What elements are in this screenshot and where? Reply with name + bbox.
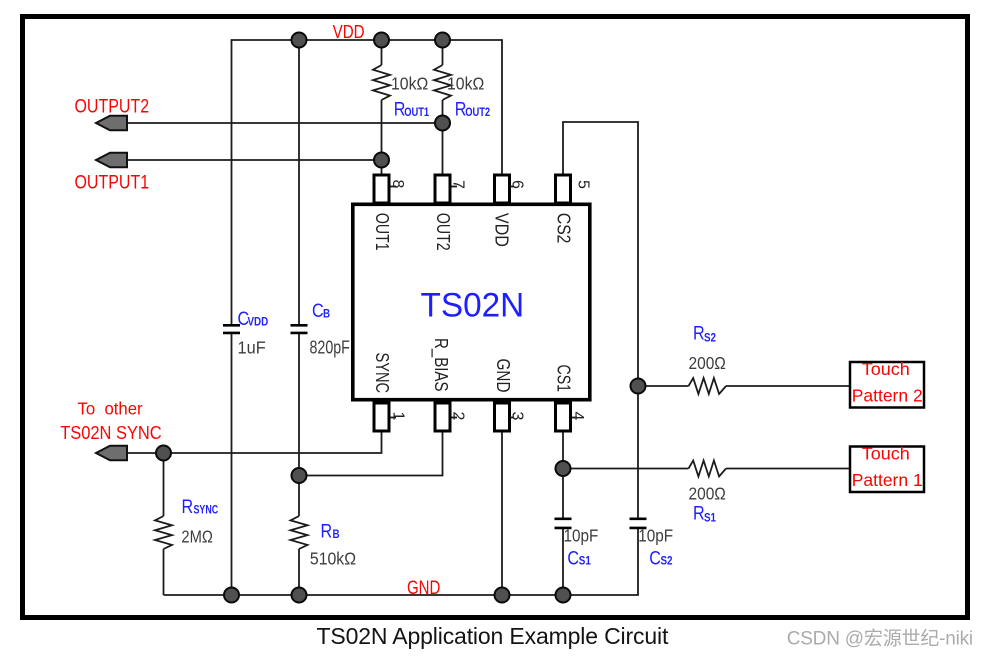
svg-text:510kΩ: 510kΩ <box>310 548 356 568</box>
svg-text:6: 6 <box>509 180 526 189</box>
label RB <box>321 520 340 542</box>
capacitor CVDD plates <box>223 325 240 333</box>
wire CS2 bottom to GND rail <box>164 529 639 596</box>
label CS2 <box>649 547 672 569</box>
wire ROUT2 to pin7 <box>442 100 444 174</box>
pin 7 tick <box>452 186 458 188</box>
wire CS2 node to RS2 <box>638 385 689 387</box>
svg-text:R: R <box>321 520 333 542</box>
svg-text:Touch: Touch <box>862 359 910 379</box>
wire pin4 to CS1 node <box>562 430 564 518</box>
node junction SYNC-RSYNC <box>156 446 171 461</box>
wire GND rail to RSYNC <box>163 549 165 595</box>
svg-text:200Ω: 200Ω <box>689 483 726 503</box>
label ROUT1 <box>394 98 429 120</box>
resistor RB <box>291 516 308 549</box>
svg-text:S1: S1 <box>579 555 591 568</box>
svg-text:4: 4 <box>569 412 586 421</box>
wire OUTPUT1 net <box>126 159 382 161</box>
capacitor CB plates <box>291 325 308 333</box>
svg-text:CS2: CS2 <box>553 213 573 244</box>
wire RB bottom to GND rail <box>298 549 300 595</box>
wire VDD to ROUT2 <box>442 40 444 65</box>
svg-text:10kΩ: 10kΩ <box>447 74 484 94</box>
pin 5 <box>556 175 571 203</box>
wire CB bottom to node RB <box>298 334 300 516</box>
pin 3 tick <box>511 417 514 419</box>
svg-text:OUTPUT2: OUTPUT2 <box>75 95 150 117</box>
svg-text:10pF: 10pF <box>564 525 599 545</box>
wire VDD to CB top <box>298 40 300 325</box>
svg-text:R: R <box>182 496 194 518</box>
pin 2 tick <box>452 417 458 419</box>
svg-text:C: C <box>567 547 579 569</box>
svg-text:B: B <box>323 308 330 321</box>
resistor RSYNC <box>155 516 172 549</box>
pin 1 tick <box>391 417 397 419</box>
resistor ROUT2 <box>434 65 451 100</box>
label ROUT2 <box>455 98 490 120</box>
svg-text:Touch: Touch <box>862 444 910 464</box>
svg-text:CSDN @宏源世纪-niki: CSDN @宏源世纪-niki <box>787 628 973 650</box>
wire RBIAS net pin2 <box>299 430 443 476</box>
pin 7 <box>435 175 450 203</box>
svg-text:R: R <box>693 322 705 344</box>
svg-text:S2: S2 <box>661 555 673 568</box>
node junction VDD-ROUT2 <box>435 33 450 48</box>
wire RS2 to Touch Pattern 2 <box>726 385 849 387</box>
svg-text:R_BIAS: R_BIAS <box>430 338 451 392</box>
wire CS1 node to RS1 <box>563 468 689 470</box>
node junction CS2-RS2 <box>631 379 646 394</box>
svg-text:S1: S1 <box>704 512 716 525</box>
node junction VDD-ROUT1 <box>374 33 389 48</box>
pin 1 <box>374 403 389 431</box>
pin 6 <box>495 175 510 203</box>
svg-text:10kΩ: 10kΩ <box>391 74 428 94</box>
pin 4 tick <box>572 417 577 419</box>
pin 6 tick <box>511 186 514 188</box>
wire CVDD bottom to GND rail <box>231 334 233 595</box>
wire pin5 to CS2 column <box>563 122 638 518</box>
wire pin3 to GND rail <box>501 430 503 595</box>
svg-text:OUT2: OUT2 <box>465 106 490 119</box>
svg-text:OUT1: OUT1 <box>404 106 429 119</box>
svg-text:5: 5 <box>575 180 592 189</box>
label RS1 <box>693 502 716 525</box>
wire VDD to CVDD top <box>231 40 233 325</box>
SYNC port arrow <box>96 446 127 461</box>
wire VDD top rail <box>232 40 503 174</box>
label CS1 <box>567 547 590 569</box>
svg-text:To other: To other <box>78 398 143 419</box>
svg-text:R: R <box>693 502 705 524</box>
pin 8 tick <box>391 186 397 188</box>
node junction CS1-RS1 <box>556 461 571 476</box>
svg-text:3: 3 <box>509 412 526 421</box>
capacitor CS2 plates <box>630 519 647 528</box>
svg-text:SYNC: SYNC <box>372 353 392 394</box>
pin 4 <box>556 403 571 431</box>
node junction VDD-CB <box>292 33 307 48</box>
op-amp U1 TS02N body <box>353 204 590 399</box>
svg-text:VDD: VDD <box>492 213 512 247</box>
svg-text:2MΩ: 2MΩ <box>181 527 212 547</box>
node junction GND-pin3 <box>495 588 510 603</box>
wire RS1 to Touch Pattern 1 <box>726 468 849 470</box>
wire SYNC net to pin1 <box>126 430 382 453</box>
pin 8 <box>374 175 389 203</box>
svg-text:TS02N Application Example Circ: TS02N Application Example Circuit <box>317 623 669 649</box>
svg-text:2: 2 <box>450 412 467 421</box>
svg-text:CS1: CS1 <box>553 365 573 393</box>
wire ROUT1 to pin8 <box>381 100 383 174</box>
label RS2 <box>693 322 716 345</box>
Touch Pattern 2 box <box>850 362 924 408</box>
svg-text:1uF: 1uF <box>238 337 266 358</box>
resistor ROUT1 <box>373 65 390 100</box>
svg-text:OUTPUT1: OUTPUT1 <box>75 171 150 193</box>
svg-text:8: 8 <box>389 180 406 189</box>
OUTPUT1 port arrow <box>96 153 127 168</box>
svg-text:7: 7 <box>450 180 467 189</box>
svg-text:200Ω: 200Ω <box>689 353 726 373</box>
node junction OUTPUT2-pin7 <box>435 116 450 131</box>
node junction OUTPUT1-pin8 <box>374 153 389 168</box>
svg-text:GND: GND <box>493 359 513 393</box>
label CB <box>312 300 330 322</box>
resistor RS2 <box>689 378 727 394</box>
svg-text:OUT2: OUT2 <box>433 213 453 251</box>
label CVDD <box>238 308 269 330</box>
wire VDD to ROUT1 <box>381 40 383 65</box>
svg-text:TS02N: TS02N <box>421 287 525 324</box>
svg-text:Pattern 1: Pattern 1 <box>852 470 923 490</box>
OUTPUT2 port arrow <box>96 116 127 131</box>
svg-text:VDD: VDD <box>333 22 365 43</box>
svg-text:C: C <box>649 547 661 569</box>
svg-text:C: C <box>312 300 324 322</box>
svg-text:OUT1: OUT1 <box>372 213 392 251</box>
wire OUTPUT2 net <box>126 122 443 124</box>
pin 2 <box>435 403 450 431</box>
wire CS1 bottom to GND rail <box>562 529 564 596</box>
svg-text:SYNC: SYNC <box>194 503 219 517</box>
svg-text:VDD: VDD <box>248 316 269 329</box>
node junction GND-CVDD <box>224 588 239 603</box>
svg-text:1: 1 <box>390 412 407 421</box>
wire RSYNC to SYNC net <box>163 453 165 516</box>
node junction GND-CS1 <box>556 588 571 603</box>
capacitor CS1 plates <box>555 519 572 528</box>
svg-text:10pF: 10pF <box>638 525 673 545</box>
label RSYNC <box>182 496 219 518</box>
svg-text:B: B <box>333 528 340 541</box>
svg-text:820pF: 820pF <box>310 338 350 358</box>
svg-text:S2: S2 <box>704 332 716 345</box>
Touch Pattern 1 box <box>850 447 924 493</box>
node junction RB-RBIAS <box>292 468 307 483</box>
svg-text:GND: GND <box>407 576 440 598</box>
pin 3 <box>495 403 510 431</box>
svg-text:TS02N SYNC: TS02N SYNC <box>60 422 161 443</box>
svg-text:Pattern 2: Pattern 2 <box>852 385 923 405</box>
resistor RS1 <box>689 461 727 477</box>
node junction GND-RB <box>292 588 307 603</box>
